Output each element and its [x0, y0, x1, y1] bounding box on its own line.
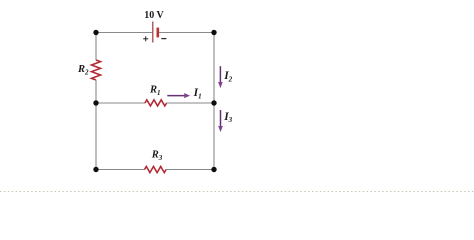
svg-text:R2: R2 [77, 64, 89, 76]
node junction bottom-left [93, 167, 98, 172]
wire right upper segment [213, 33, 215, 104]
battery V1 negative plate [157, 28, 160, 38]
wire left upper segment [95, 33, 97, 61]
node junction top-left [93, 30, 98, 35]
svg-text:R1: R1 [149, 85, 161, 97]
node junction middle-right [211, 100, 216, 105]
wire bottom-left segment [96, 169, 145, 171]
resistor R1 [145, 100, 167, 106]
battery polarity - sign [161, 38, 166, 40]
current arrow I2 [218, 66, 223, 88]
current arrow I1 [167, 93, 190, 98]
node junction middle-left [93, 100, 98, 105]
wire left lower segment [95, 80, 97, 170]
svg-text:I1: I1 [193, 87, 202, 100]
battery V1 positive plate [152, 22, 154, 43]
node junction top-right [211, 30, 216, 35]
wire bottom-right segment [166, 169, 214, 171]
resistor R2 [92, 60, 101, 80]
svg-text:10 V: 10 V [144, 10, 164, 21]
resistor R3 [145, 167, 167, 173]
battery polarity + sign [143, 36, 148, 41]
current arrow I3 [218, 110, 223, 132]
svg-text:R3: R3 [151, 149, 163, 161]
wire top-left segment (node A to battery + plate) [96, 32, 152, 34]
svg-text:I3: I3 [223, 111, 232, 124]
wire right lower segment [213, 103, 215, 170]
node junction bottom-right [211, 167, 216, 172]
wire middle-right segment [166, 102, 214, 104]
page separator dotted line [0, 191, 474, 193]
wire top-right segment (battery - plate to node B) [158, 32, 214, 34]
svg-text:I2: I2 [223, 70, 232, 83]
wire middle-left segment [96, 102, 145, 104]
